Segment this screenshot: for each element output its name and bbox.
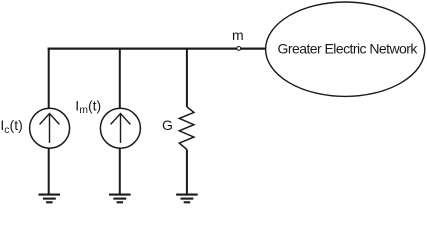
current source I1 Ic(t): [30, 108, 70, 148]
wire resistor to ground: [186, 150, 188, 195]
wire branch 1 vertical drop: [48, 49, 50, 109]
svg-text:Im(t): Im(t): [75, 98, 101, 117]
current source I2 Im(t): [100, 108, 140, 148]
svg-text:Greater Electric Network: Greater Electric Network: [278, 41, 419, 57]
wire circle1 to ground: [48, 148, 50, 195]
wire circle2 to ground: [119, 148, 121, 195]
greater electric network ellipse: [266, 2, 425, 96]
svg-text:m: m: [232, 27, 244, 43]
svg-text:G: G: [162, 117, 173, 133]
wire top bus: [48, 47, 266, 49]
wire branch 3 vertical drop: [186, 49, 188, 107]
svg-text:Ic(t): Ic(t): [0, 117, 22, 136]
resistor G zigzag: [179, 107, 194, 150]
node m terminal: [237, 47, 241, 51]
ground G2: [109, 195, 131, 203]
ground G1: [39, 195, 61, 203]
wire branch 2 vertical drop: [119, 49, 121, 109]
ground G3: [176, 195, 198, 203]
